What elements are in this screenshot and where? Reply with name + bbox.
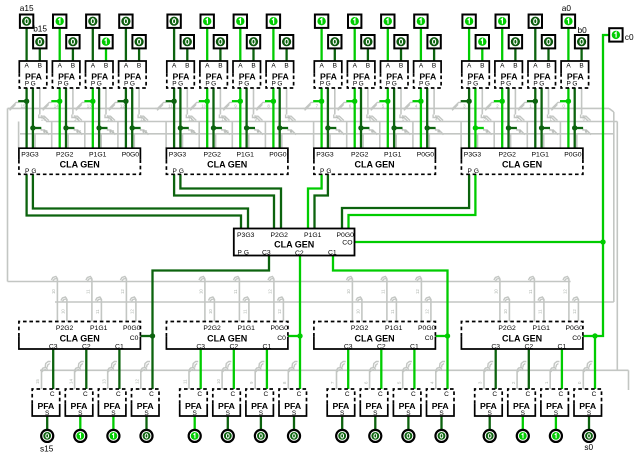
- node P14 junction: [57, 99, 62, 104]
- svg-text:12: 12: [120, 104, 125, 109]
- svg-text:A: A: [238, 62, 243, 69]
- svg-text:CLA GEN: CLA GEN: [274, 239, 314, 249]
- node P12 junction: [123, 99, 128, 104]
- wire group1 P: [308, 174, 322, 228]
- input pin a2: [496, 15, 509, 28]
- wire P15: [18, 88, 26, 148]
- svg-text:A: A: [271, 62, 276, 69]
- op PFA U5 (top): [381, 61, 409, 88]
- wire a12: [125, 28, 127, 61]
- output pin s7: [336, 430, 348, 442]
- svg-text:10: 10: [216, 379, 221, 384]
- svg-text:15: 15: [41, 117, 46, 122]
- svg-text:G: G: [506, 81, 511, 88]
- wire a14: [59, 28, 61, 61]
- wire G12: [132, 88, 140, 148]
- op CLA GEN level1b group2: [166, 322, 288, 351]
- op PFA S15 (bottom): [32, 389, 60, 417]
- wire ghost bottom bus: [40, 370, 629, 390]
- wire group2 G: [180, 174, 281, 228]
- wire P13: [84, 88, 92, 148]
- wire b14: [72, 48, 74, 61]
- op CLA GEN level1 group2: [166, 148, 288, 175]
- wire P5: [379, 88, 387, 148]
- wire s12: [145, 416, 147, 429]
- svg-text:10: 10: [493, 289, 498, 294]
- wire a2: [501, 28, 503, 61]
- svg-text:10: 10: [224, 129, 229, 134]
- svg-text:P: P: [25, 81, 29, 88]
- wire b7: [334, 48, 336, 61]
- input pin a12: [119, 15, 132, 28]
- svg-text:P2G2: P2G2: [56, 152, 74, 159]
- svg-text:P2G2: P2G2: [271, 232, 289, 239]
- wire ghost sum feed bit0: [577, 362, 593, 390]
- wire ghost column bit9: [221, 88, 262, 148]
- svg-text:B: B: [284, 62, 288, 69]
- wire ghost PG feed group0 pos0: [51, 277, 67, 322]
- wire a15: [25, 28, 27, 61]
- svg-text:S: S: [521, 410, 526, 417]
- svg-text:11: 11: [242, 309, 247, 314]
- wire s11: [194, 416, 196, 429]
- wire G8: [280, 88, 288, 148]
- svg-text:14: 14: [68, 379, 73, 384]
- svg-text:C2: C2: [524, 344, 533, 351]
- svg-text:B: B: [104, 62, 108, 69]
- svg-text:C1: C1: [263, 343, 272, 350]
- input pin b6: [361, 35, 374, 48]
- svg-text:12: 12: [120, 289, 125, 294]
- wire ghost sum feed bit5: [396, 362, 412, 390]
- wire ghost lower bus1: [8, 281, 571, 283]
- op PFA S12 (bottom): [132, 389, 160, 417]
- node G13 junction: [96, 125, 101, 130]
- svg-text:15: 15: [35, 379, 40, 384]
- svg-text:C0: C0: [277, 335, 286, 342]
- wire b1: [547, 48, 549, 61]
- svg-text:A: A: [386, 62, 391, 69]
- svg-text:B: B: [399, 62, 403, 69]
- svg-text:A: A: [205, 62, 210, 69]
- wire G7: [328, 88, 336, 148]
- svg-text:P3G3: P3G3: [464, 152, 482, 159]
- svg-text:P0G0: P0G0: [418, 325, 436, 332]
- svg-text:B: B: [185, 62, 189, 69]
- wire ghost PG feed group0 pos2: [120, 277, 136, 322]
- input pin b8: [280, 35, 293, 48]
- wire G4: [427, 88, 435, 148]
- svg-text:S: S: [587, 410, 592, 417]
- node P0 junction: [566, 99, 571, 104]
- op CLA GEN level1 group0: [461, 148, 583, 175]
- op PFA U8 (top): [266, 61, 294, 88]
- svg-text:C: C: [83, 391, 88, 398]
- wire ghost sum feed bit14: [68, 362, 84, 390]
- node C3 junction: [150, 333, 155, 338]
- node G6 junction: [358, 125, 363, 130]
- wire ghost column bit2: [483, 88, 525, 148]
- svg-text:C3: C3: [344, 343, 353, 350]
- input pin b3: [476, 35, 489, 48]
- svg-text:C: C: [230, 391, 235, 398]
- svg-text:C2: C2: [295, 250, 304, 257]
- svg-text:11: 11: [85, 289, 90, 294]
- svg-text:C: C: [559, 391, 564, 398]
- wire s10: [227, 416, 229, 429]
- op PFA S1 (bottom): [541, 389, 569, 417]
- wire s8: [293, 416, 295, 429]
- wire P1: [527, 88, 535, 148]
- wire group3 P: [27, 174, 241, 228]
- input pin b5: [394, 35, 407, 48]
- svg-text:A: A: [58, 62, 63, 69]
- wire G1: [542, 88, 550, 148]
- node G11 junction: [178, 125, 183, 130]
- output pin s8: [288, 430, 300, 442]
- svg-text:A: A: [353, 62, 358, 69]
- svg-text:S: S: [292, 410, 297, 417]
- wire ghost sum feed bit8: [282, 362, 298, 390]
- svg-text:B: B: [71, 62, 75, 69]
- svg-text:G: G: [244, 81, 249, 88]
- svg-text:G: G: [178, 81, 183, 88]
- svg-text:P1G1: P1G1: [533, 325, 551, 332]
- node P10 junction: [205, 99, 210, 104]
- wire s6: [374, 416, 376, 429]
- svg-text:P0G0: P0G0: [271, 325, 289, 332]
- wire ghost sum feed bit11: [183, 362, 199, 390]
- wire P8: [265, 88, 273, 148]
- wire ghost column bit14: [41, 88, 82, 148]
- svg-text:11: 11: [390, 309, 395, 314]
- svg-text:C0: C0: [130, 335, 139, 342]
- op PFA S2 (bottom): [508, 389, 536, 417]
- svg-text:14: 14: [74, 117, 79, 122]
- wire group0 P: [342, 174, 469, 228]
- wire carry c5: [413, 349, 415, 389]
- op CLA GEN level2 (central): [234, 229, 355, 257]
- wire P7: [313, 88, 321, 148]
- wire s15: [46, 416, 48, 429]
- svg-text:S: S: [373, 410, 378, 417]
- svg-text:P1G1: P1G1: [89, 152, 107, 159]
- svg-text:11: 11: [233, 289, 238, 294]
- wire G11: [180, 88, 188, 148]
- op PFA S10 (bottom): [213, 389, 241, 417]
- svg-text:10: 10: [198, 289, 203, 294]
- wire s13: [112, 416, 114, 429]
- node G9 junction: [244, 125, 249, 130]
- wire ghost sum feed bit9: [249, 362, 265, 390]
- wire ghost bus1: [8, 108, 614, 112]
- node P6 junction: [352, 99, 357, 104]
- svg-text:P: P: [419, 81, 423, 88]
- output pin s15: [41, 430, 53, 442]
- wire s14: [79, 416, 81, 429]
- svg-text:C: C: [50, 391, 55, 398]
- svg-text:P3G3: P3G3: [316, 152, 334, 159]
- node C1 junction: [445, 333, 450, 338]
- svg-text:C: C: [378, 391, 383, 398]
- op CLA GEN level1 group1: [314, 148, 436, 175]
- svg-text:P2G2: P2G2: [204, 152, 222, 159]
- svg-text:14: 14: [54, 104, 59, 109]
- wire ghost sum feed bit4: [430, 362, 446, 390]
- wire c0 net: [355, 35, 610, 389]
- svg-text:s0: s0: [584, 442, 593, 452]
- svg-text:S: S: [45, 410, 50, 417]
- wire ghost PG feed group0 pos1: [85, 277, 101, 322]
- svg-text:P: P: [500, 81, 504, 88]
- svg-text:P0G0: P0G0: [122, 152, 140, 159]
- svg-text:A: A: [172, 62, 177, 69]
- input pin b11: [181, 35, 194, 48]
- wire a4: [420, 28, 422, 61]
- svg-text:G: G: [277, 81, 282, 88]
- op PFA S9 (bottom): [246, 389, 274, 417]
- svg-text:P2G2: P2G2: [56, 325, 74, 332]
- svg-text:P: P: [238, 81, 242, 88]
- wire ghost left vertical: [7, 108, 9, 281]
- node P7 junction: [319, 99, 324, 104]
- wire ghost right vertical A: [613, 112, 615, 302]
- wire G5: [394, 88, 402, 148]
- svg-text:b15: b15: [33, 24, 47, 34]
- wire group0 G: [349, 174, 476, 228]
- wire ghost sum feed bit10: [216, 362, 232, 390]
- wire ghost sum feed bit7: [330, 362, 346, 390]
- svg-text:C0: C0: [425, 335, 434, 342]
- wire b11: [186, 48, 188, 61]
- op PFA S13 (bottom): [98, 389, 126, 417]
- input pin b0: [575, 35, 588, 48]
- wire ghost column bit4: [402, 88, 444, 148]
- svg-text:G: G: [64, 81, 69, 88]
- svg-text:P: P: [124, 81, 128, 88]
- svg-text:S: S: [78, 410, 83, 417]
- svg-text:S: S: [488, 410, 493, 417]
- wire ghost PG feed group2 pos0: [346, 277, 362, 322]
- wire carry c11: [200, 349, 202, 389]
- input pin c0: [609, 28, 622, 41]
- output pin s11: [189, 430, 201, 442]
- wire a0: [567, 28, 569, 61]
- svg-text:P0G0: P0G0: [337, 232, 355, 239]
- wire b13: [105, 48, 107, 61]
- output pin s10: [222, 430, 234, 442]
- node P4 junction: [418, 99, 423, 104]
- node G14 junction: [63, 125, 68, 130]
- node G8 junction: [277, 125, 282, 130]
- svg-text:C: C: [411, 391, 416, 398]
- svg-text:13: 13: [107, 117, 112, 122]
- wire ghost column bit5: [369, 88, 411, 148]
- svg-text:12: 12: [572, 309, 577, 314]
- wire group1 G: [315, 174, 328, 228]
- wire carry c10: [233, 349, 235, 389]
- svg-text:P1G1: P1G1: [384, 152, 402, 159]
- node G2 junction: [506, 125, 511, 130]
- wire ghost sum feed bit6: [363, 362, 379, 390]
- wire ghost bus3: [20, 133, 614, 135]
- svg-text:G: G: [326, 168, 331, 175]
- input pin b1: [542, 35, 555, 48]
- input pin a1: [529, 15, 542, 28]
- svg-text:P: P: [272, 81, 276, 88]
- node G1 junction: [539, 125, 544, 130]
- node b0 label: [578, 25, 588, 35]
- input pin b15: [33, 35, 46, 48]
- wire ghost lower bus2: [55, 301, 614, 303]
- svg-text:a15: a15: [20, 3, 34, 13]
- svg-text:C: C: [264, 391, 269, 398]
- svg-text:P1G1: P1G1: [90, 325, 108, 332]
- wire a10: [206, 28, 208, 61]
- output pin s5: [402, 430, 414, 442]
- op PFA U7 (top): [314, 61, 342, 88]
- svg-text:S: S: [226, 410, 231, 417]
- svg-text:C: C: [297, 391, 302, 398]
- wire b15: [39, 48, 41, 61]
- output pin s14: [74, 430, 86, 442]
- svg-text:CLA GEN: CLA GEN: [207, 333, 247, 343]
- wire ghost sum feed bit13: [101, 362, 117, 390]
- wire a8: [272, 28, 274, 61]
- output pin s9: [255, 430, 267, 442]
- svg-text:C1: C1: [558, 343, 567, 350]
- svg-text:B: B: [432, 62, 436, 69]
- op PFA U3 (top): [462, 61, 490, 88]
- wire ghost PG feed group3 pos1: [528, 277, 544, 322]
- svg-text:G: G: [392, 81, 397, 88]
- output pin s4: [435, 430, 447, 442]
- svg-text:C2: C2: [377, 344, 386, 351]
- svg-text:A: A: [500, 62, 505, 69]
- input pin a8: [267, 15, 280, 28]
- wire a6: [354, 28, 356, 61]
- wire ghost column bit8: [254, 88, 296, 148]
- svg-text:B: B: [546, 62, 550, 69]
- wire b6: [367, 48, 369, 61]
- svg-text:P: P: [58, 81, 62, 88]
- wire G0: [575, 88, 583, 148]
- wire carry c2: [528, 349, 530, 389]
- wire C3 (carry into group3): [140, 256, 269, 390]
- node s0 label: [584, 442, 593, 452]
- svg-text:A: A: [124, 62, 129, 69]
- wire ghost PG feed group2 pos1: [380, 277, 396, 322]
- wire P0: [560, 88, 568, 148]
- svg-text:C: C: [197, 391, 202, 398]
- svg-text:11: 11: [537, 309, 542, 314]
- svg-text:P0G0: P0G0: [564, 152, 582, 159]
- wire G14: [66, 88, 74, 148]
- wire P9: [232, 88, 240, 148]
- wire s1: [555, 416, 557, 429]
- wire b2: [514, 48, 516, 61]
- wire s5: [407, 416, 409, 429]
- node G0 junction: [572, 125, 577, 130]
- svg-text:S: S: [340, 410, 345, 417]
- input pin a6: [348, 15, 361, 28]
- svg-text:G: G: [244, 249, 249, 256]
- svg-text:P: P: [467, 81, 471, 88]
- svg-text:CLA GEN: CLA GEN: [502, 160, 542, 170]
- svg-text:P0G0: P0G0: [123, 325, 141, 332]
- output pin s0: [583, 430, 595, 442]
- wire G15: [33, 88, 41, 148]
- svg-text:G: G: [539, 81, 544, 88]
- svg-text:G: G: [97, 81, 102, 88]
- svg-text:P: P: [320, 81, 324, 88]
- wire ghost column bit7: [303, 88, 345, 148]
- op PFA S7 (bottom): [327, 389, 355, 417]
- svg-text:P3G3: P3G3: [21, 152, 39, 159]
- wire ghost column bit1: [516, 88, 558, 148]
- op PFA U0 (top): [561, 61, 589, 88]
- svg-text:C: C: [492, 391, 497, 398]
- svg-text:G: G: [473, 81, 478, 88]
- op PFA U14 (top): [52, 61, 80, 88]
- node a0 label: [562, 3, 572, 13]
- svg-text:P1G1: P1G1: [385, 325, 403, 332]
- op PFA S11 (bottom): [180, 389, 208, 417]
- svg-text:12: 12: [142, 129, 147, 134]
- svg-text:P3G3: P3G3: [169, 152, 187, 159]
- wire carry c1: [561, 349, 563, 389]
- svg-text:CLA GEN: CLA GEN: [355, 160, 395, 170]
- wire G2: [509, 88, 517, 148]
- wire P14: [51, 88, 59, 148]
- node G7 junction: [325, 125, 330, 130]
- svg-text:C0: C0: [572, 335, 581, 342]
- output pin s1: [550, 430, 562, 442]
- svg-text:P0G0: P0G0: [566, 325, 584, 332]
- node c0 label: [625, 32, 634, 42]
- wire carry c7: [347, 349, 349, 389]
- svg-text:C3: C3: [262, 249, 271, 256]
- svg-text:10: 10: [355, 309, 360, 314]
- wire group3 G: [33, 174, 248, 228]
- svg-text:11: 11: [188, 117, 193, 122]
- input pin a7: [315, 15, 328, 28]
- op CLA GEN level1b group0: [461, 322, 583, 351]
- wire group2 P: [174, 174, 274, 228]
- wire b4: [433, 48, 435, 61]
- svg-text:C: C: [116, 391, 121, 398]
- op PFA U4 (top): [414, 61, 442, 88]
- op PFA S0 (bottom): [574, 389, 602, 417]
- input pin a10: [201, 15, 214, 28]
- svg-text:S: S: [193, 410, 198, 417]
- svg-text:C3: C3: [49, 343, 58, 350]
- input pin b9: [247, 35, 260, 48]
- svg-text:P2G2: P2G2: [499, 152, 517, 159]
- svg-text:C2: C2: [82, 344, 91, 351]
- wire a5: [387, 28, 389, 61]
- node P13 junction: [90, 99, 95, 104]
- svg-text:12: 12: [415, 289, 420, 294]
- svg-text:B: B: [480, 62, 484, 69]
- svg-text:CLA GEN: CLA GEN: [60, 333, 100, 343]
- node C2 junction: [297, 333, 302, 338]
- svg-text:10: 10: [51, 289, 56, 294]
- svg-text:c0: c0: [625, 32, 634, 42]
- wire G3: [475, 88, 483, 148]
- svg-text:a0: a0: [562, 3, 572, 13]
- svg-text:12: 12: [135, 379, 140, 384]
